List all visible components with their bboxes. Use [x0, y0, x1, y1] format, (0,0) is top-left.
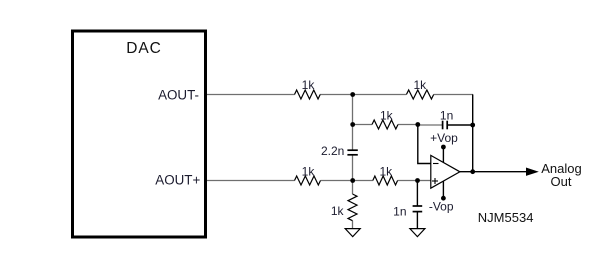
svg-text:1k: 1k	[302, 78, 316, 92]
svg-text:Out: Out	[551, 174, 572, 189]
svg-text:-Vop: -Vop	[429, 200, 454, 214]
svg-text:1n: 1n	[393, 204, 406, 218]
svg-text:1n: 1n	[440, 108, 453, 122]
svg-text:1k: 1k	[380, 108, 394, 122]
svg-text:1k: 1k	[331, 204, 345, 218]
svg-text:2.2n: 2.2n	[321, 144, 344, 158]
svg-text:+Vop: +Vop	[430, 131, 458, 145]
svg-text:NJM5534: NJM5534	[478, 210, 534, 225]
svg-text:1k: 1k	[413, 78, 427, 92]
svg-text:1k: 1k	[379, 165, 393, 179]
svg-text:1k: 1k	[302, 165, 316, 179]
svg-text:AOUT+: AOUT+	[155, 172, 200, 187]
svg-text:AOUT-: AOUT-	[158, 87, 199, 102]
svg-text:DAC: DAC	[126, 40, 161, 57]
